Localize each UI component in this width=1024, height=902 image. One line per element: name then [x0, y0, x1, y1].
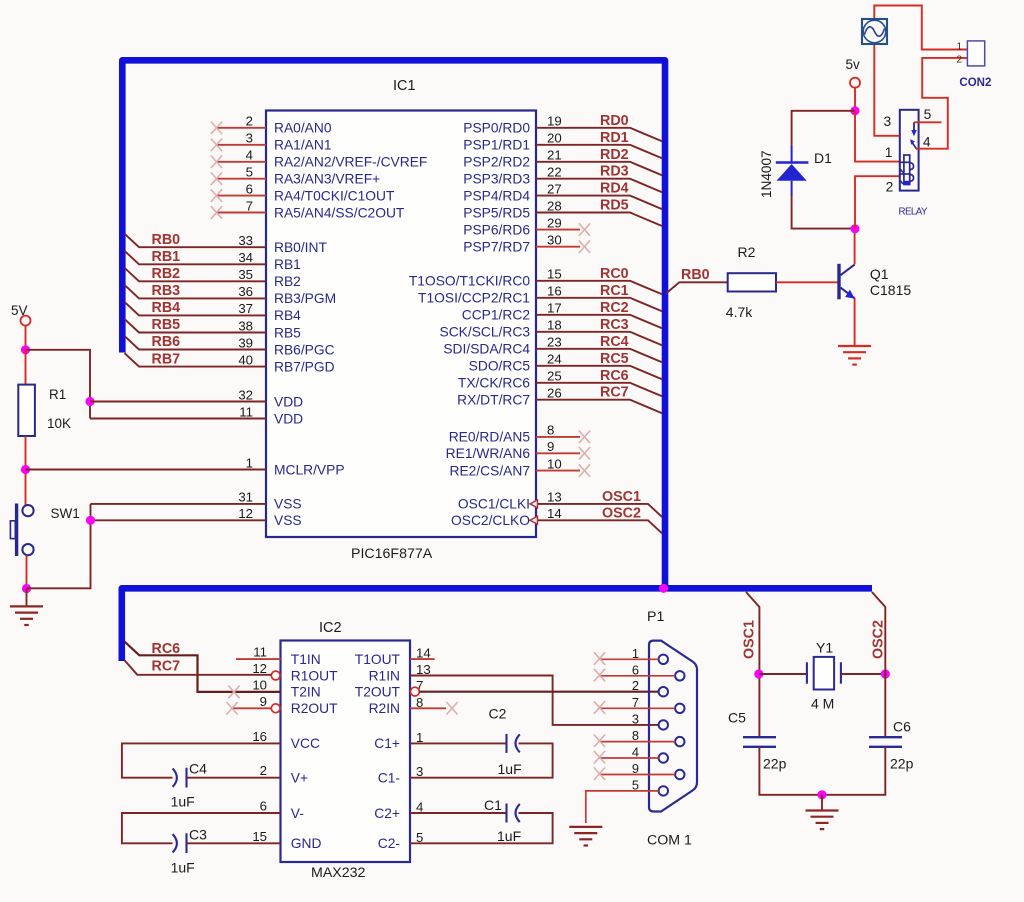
svg-text:R1OUT: R1OUT: [291, 668, 338, 683]
label net RC1: [600, 283, 629, 299]
diode D1: [776, 146, 809, 196]
node crystal ground junction: [817, 790, 826, 799]
svg-text:11: 11: [253, 645, 267, 660]
label CON2: [959, 77, 991, 89]
svg-text:T2OUT: T2OUT: [355, 684, 401, 699]
label C2: [489, 706, 507, 722]
svg-text:RB6/PGC: RB6/PGC: [274, 342, 335, 357]
svg-text:PSP5/RD5: PSP5/RD5: [463, 205, 530, 220]
wire net RB7 bus-to-pin 40: [125, 353, 267, 367]
relay NO contact arrow pin4: [910, 139, 917, 149]
label net RD4: [600, 181, 629, 197]
wire Q1 emitter down: [854, 298, 856, 346]
pin 14 input arrow: [530, 516, 538, 524]
wire C1+ to C2: [410, 742, 506, 744]
op-amp U1 IC1 PIC16F877A body: [266, 111, 536, 538]
wire net RD0 pin 19-to-bus: [536, 128, 662, 142]
svg-text:VDD: VDD: [274, 394, 303, 409]
svg-text:C1: C1: [484, 797, 502, 813]
svg-text:RE0/RD/AN5: RE0/RD/AN5: [449, 430, 531, 445]
svg-text:SCK/SCL/RC3: SCK/SCL/RC3: [440, 325, 531, 340]
label Y1 value 4 M: [811, 696, 834, 712]
svg-text:RC5: RC5: [600, 351, 629, 367]
wire 5V junction to VDD rail: [26, 350, 91, 419]
no-connect X pin 5: [211, 172, 222, 185]
wire C5 to ground rail: [759, 747, 822, 795]
AC load symbol: [862, 19, 887, 44]
pin bubble T2OUT: [411, 687, 420, 696]
wire stub pin 9 RE1/WR/AN6: [536, 452, 580, 454]
svg-text:38: 38: [238, 318, 253, 333]
resistor R2: [728, 273, 776, 291]
svg-text:OSC2: OSC2: [602, 505, 641, 521]
svg-text:1: 1: [632, 646, 639, 661]
svg-text:RC2: RC2: [600, 300, 629, 316]
no-connect X pin 29: [579, 223, 590, 236]
wire net T2OUT to P1 pin2: [419, 691, 658, 693]
node 5V junction: [21, 345, 30, 354]
relay pin number 2: [886, 180, 894, 195]
wire net OSC1 bus-to-crystal: [746, 592, 759, 737]
svg-text:R2IN: R2IN: [369, 701, 400, 716]
node ground junction left: [22, 584, 31, 593]
wire relay pin4 to CON2 pin2: [916, 58, 967, 149]
wire net OSC1 pin 13-to-bus: [536, 504, 662, 517]
svg-text:RC4: RC4: [600, 334, 629, 350]
label net RC0: [600, 266, 629, 282]
svg-text:RA3/AN3/VREF+: RA3/AN3/VREF+: [274, 172, 380, 187]
svg-text:5: 5: [246, 165, 253, 180]
svg-text:VDD: VDD: [274, 411, 303, 426]
wire stub pin 7 RA5/AN4/SS/C2OUT: [217, 212, 266, 214]
svg-text:PSP3/RD3: PSP3/RD3: [463, 172, 530, 187]
svg-text:C3: C3: [189, 827, 207, 843]
svg-text:23: 23: [547, 335, 562, 350]
svg-text:RB1: RB1: [274, 257, 301, 272]
no-connect X pin 3: [211, 139, 222, 152]
wire stub pin 5 RA3/AN3/VREF+: [217, 178, 266, 180]
node VSS rail junction: [86, 516, 95, 525]
wire C2 loop to C1-: [410, 743, 553, 777]
svg-text:RB0: RB0: [152, 232, 181, 248]
svg-text:12: 12: [252, 661, 267, 676]
svg-text:RB3/PGM: RB3/PGM: [274, 291, 336, 306]
label C4 value 1uF: [171, 794, 195, 810]
svg-text:C6: C6: [893, 719, 911, 735]
svg-text:RELAY: RELAY: [899, 207, 928, 218]
svg-text:RA1/AN1: RA1/AN1: [274, 138, 332, 153]
label IC2 designator: [319, 620, 342, 636]
wire stub pin 2 RA0/AN0: [217, 127, 266, 129]
capacitor C2: [507, 734, 520, 753]
svg-text:RA4/T0CKI/C1OUT: RA4/T0CKI/C1OUT: [274, 188, 395, 203]
CON2 pin number 1: [957, 41, 963, 52]
svg-text:RA2/AN2/VREF-/CVREF: RA2/AN2/VREF-/CVREF: [274, 155, 427, 170]
label net RB1: [152, 249, 181, 265]
svg-text:16: 16: [547, 284, 562, 299]
switch SW1: [10, 504, 33, 557]
svg-text:CON2: CON2: [959, 77, 991, 89]
svg-text:40: 40: [238, 352, 253, 367]
IC1 left pin numbers: [238, 114, 253, 521]
capacitor C6: [869, 737, 902, 747]
wire VSS pin31: [91, 503, 267, 505]
svg-text:C1+: C1+: [374, 736, 400, 751]
svg-text:T1OSO/T1CKI/RC0: T1OSO/T1CKI/RC0: [409, 274, 530, 289]
svg-text:26: 26: [547, 386, 562, 401]
wire crystal to OSC2: [841, 673, 885, 675]
IC2 right pin names and numbers: [355, 646, 431, 852]
capacitor C3: [173, 833, 187, 853]
wire bus2 (thick blue) bottom rail: [122, 588, 872, 661]
wire stub pin 29 PSP6/RD6: [536, 229, 580, 231]
wire net RC2 pin 17-to-bus: [536, 315, 662, 329]
svg-text:OSC1: OSC1: [742, 620, 758, 659]
svg-text:C2: C2: [489, 706, 507, 722]
svg-text:RC1: RC1: [600, 283, 629, 299]
relay switch contact: [911, 122, 917, 136]
svg-text:4 M: 4 M: [811, 696, 834, 712]
wire VSS rail down: [27, 504, 91, 588]
svg-text:R1: R1: [49, 387, 66, 402]
capacitor C5: [743, 737, 776, 747]
svg-text:RE2/CS/AN7: RE2/CS/AN7: [449, 463, 530, 478]
connector P1 DB9 shell: [649, 641, 697, 812]
svg-text:RC3: RC3: [600, 317, 629, 333]
svg-text:PSP0/RD0: PSP0/RD0: [463, 121, 530, 136]
label D1: [814, 150, 832, 166]
label net RD2: [600, 147, 629, 163]
svg-text:17: 17: [547, 301, 562, 316]
label MAX232: [311, 865, 366, 881]
wire net RC5 pin 24-to-bus: [536, 366, 662, 380]
label net RD3: [600, 164, 629, 180]
svg-text:9: 9: [632, 761, 639, 776]
label Y1: [816, 640, 833, 656]
wire net R1IN to P1 pin3: [410, 676, 659, 725]
node VDD rail junction: [85, 397, 94, 406]
wire net RB6 bus-to-pin 39: [125, 336, 267, 350]
svg-text:SDO/RC5: SDO/RC5: [469, 359, 531, 374]
svg-text:RD1: RD1: [600, 130, 629, 146]
svg-text:5: 5: [632, 777, 639, 792]
wire net RC6 bus-to-T2IN: [125, 642, 281, 692]
label net RD5: [600, 198, 629, 214]
svg-text:39: 39: [238, 335, 253, 350]
svg-text:10: 10: [547, 456, 562, 471]
wire net RC1 pin 16-to-bus: [536, 298, 662, 312]
wire net RB1 bus-to-pin 34: [125, 251, 267, 264]
label net RD1: [600, 130, 629, 146]
svg-text:MCLR/VPP: MCLR/VPP: [274, 462, 345, 477]
svg-text:15: 15: [252, 829, 267, 844]
label COM 1: [647, 833, 692, 849]
svg-text:OSC2/CLKO: OSC2/CLKO: [451, 513, 530, 528]
label C6: [893, 719, 911, 735]
label IC1 designator: [393, 78, 416, 94]
svg-text:V-: V-: [291, 806, 304, 821]
svg-text:4: 4: [923, 135, 931, 150]
svg-text:24: 24: [547, 352, 562, 367]
svg-text:10K: 10K: [47, 416, 71, 431]
svg-text:25: 25: [547, 369, 562, 384]
wire stub pin 30 PSP7/RD7: [536, 246, 580, 248]
wire P1 pin1: [600, 658, 659, 660]
svg-text:C2-: C2-: [378, 836, 400, 851]
svg-text:RB7/PGD: RB7/PGD: [274, 359, 335, 374]
svg-text:P1: P1: [647, 609, 664, 625]
wire SW1 to ground junction: [26, 555, 28, 589]
wire stub R2OUT pin 9: [233, 707, 271, 709]
label C4: [189, 761, 207, 777]
IC1 left pin names: [274, 121, 427, 528]
label C5 value 22p: [763, 756, 787, 772]
IC1 right pin numbers: [547, 114, 562, 521]
svg-text:SDI/SDA/RC4: SDI/SDA/RC4: [443, 342, 530, 357]
svg-text:R2: R2: [738, 244, 756, 260]
wire net OSC2 bus-to-crystal: [872, 592, 885, 737]
svg-text:RD5: RD5: [600, 198, 629, 214]
wire net RC4 pin 23-to-bus: [536, 349, 662, 363]
wire net RC7 bus-to-R1OUT: [125, 660, 272, 675]
label C1: [484, 797, 502, 813]
svg-text:36: 36: [238, 284, 253, 299]
label C6 value 22p: [890, 756, 914, 772]
svg-text:22p: 22p: [890, 756, 914, 772]
power 5v terminal circle: [850, 78, 860, 88]
svg-text:C2+: C2+: [374, 806, 400, 821]
wire stub pin 8 RE0/RD/AN5: [536, 436, 580, 438]
svg-text:14: 14: [547, 506, 562, 521]
svg-text:1: 1: [957, 41, 963, 52]
node collector junction: [850, 224, 859, 233]
wire VDD pin32: [90, 401, 266, 403]
relay pin number 4: [923, 135, 931, 150]
svg-text:RC6: RC6: [600, 368, 629, 384]
label net OSC2: [602, 505, 641, 521]
wire Q1 collector up: [854, 229, 856, 264]
relay coil: [900, 155, 914, 185]
label net RC6: [152, 641, 181, 657]
no-connect X on T2IN wire: [228, 686, 239, 699]
wire net RC7 pin 26-to-bus: [536, 400, 662, 414]
wire R2 to Q1 base: [776, 281, 838, 283]
wire D1 top branch: [792, 111, 855, 147]
label P1: [647, 609, 664, 625]
svg-text:RB3: RB3: [152, 283, 181, 299]
node MCLR junction: [21, 465, 30, 474]
no-connect X pin 7: [211, 206, 222, 219]
no-connect X P1 pin1: [594, 652, 605, 665]
wire V- loop to C3: [122, 813, 281, 843]
svg-text:22: 22: [547, 165, 562, 180]
svg-text:1N4007: 1N4007: [759, 150, 774, 198]
svg-text:C1-: C1-: [378, 771, 400, 786]
wire stub pin 6 RA4/T0CKI/C1OUT: [217, 195, 266, 197]
svg-text:RA0/AN0: RA0/AN0: [274, 121, 332, 136]
capacitor C1: [507, 804, 520, 823]
label net RC6: [600, 368, 629, 384]
svg-text:R2OUT: R2OUT: [291, 701, 338, 716]
svg-text:37: 37: [238, 301, 253, 316]
label net RD0: [600, 113, 629, 129]
pin bubble R2OUT: [271, 704, 280, 713]
svg-text:2: 2: [260, 763, 267, 778]
CON2 pin number 2: [957, 54, 963, 65]
svg-text:33: 33: [238, 233, 253, 248]
svg-text:R1IN: R1IN: [369, 668, 400, 683]
svg-text:RD0: RD0: [600, 113, 629, 129]
svg-text:RX/DT/RC7: RX/DT/RC7: [457, 393, 530, 408]
wire VDD pin11: [90, 418, 266, 420]
label net RB0: [152, 232, 181, 248]
wire 5v to relay pin1: [855, 111, 900, 162]
svg-text:RD2: RD2: [600, 147, 629, 163]
svg-text:3: 3: [884, 114, 892, 129]
wire ground stub crystal: [821, 795, 823, 810]
svg-text:1uF: 1uF: [171, 860, 195, 876]
resistor R1: [18, 385, 35, 436]
svg-text:D1: D1: [814, 150, 832, 166]
svg-text:12: 12: [238, 506, 253, 521]
wire P1 pin9: [600, 774, 676, 776]
svg-text:IC2: IC2: [319, 620, 342, 636]
no-connect X P1 pin9: [594, 767, 605, 780]
svg-text:9: 9: [547, 439, 554, 454]
label R2: [738, 244, 756, 260]
wire D1 bottom branch: [792, 195, 855, 229]
wire VCC loop to C4: [122, 743, 281, 777]
wire 5v circle down: [854, 88, 856, 111]
svg-text:4.7k: 4.7k: [726, 304, 753, 320]
svg-text:RC7: RC7: [600, 385, 629, 401]
node 5v junction: [850, 106, 859, 115]
wire C3 to GND pin: [187, 842, 281, 844]
wire R1 to MCLR junction: [25, 436, 27, 505]
svg-text:RB7: RB7: [152, 351, 181, 367]
svg-text:31: 31: [238, 490, 253, 505]
wire net RC0 pin 15-to-bus: [536, 281, 662, 295]
label net RC4: [600, 334, 629, 350]
svg-text:MAX232: MAX232: [311, 865, 366, 881]
svg-text:32: 32: [238, 387, 253, 402]
label C5: [728, 710, 746, 726]
IC1 right pin names: [409, 121, 530, 528]
wire relay pin5 stub: [914, 121, 942, 123]
wire net RD3 pin 22-to-bus: [536, 179, 662, 193]
wire P1 pin5 to ground: [586, 791, 659, 823]
svg-text:20: 20: [547, 131, 562, 146]
svg-text:VCC: VCC: [291, 736, 320, 751]
svg-text:C5: C5: [728, 710, 746, 726]
no-connect X pin 2: [211, 122, 222, 135]
wire net RB5 bus-to-pin 38: [125, 319, 267, 333]
no-connect X pin 9: [579, 447, 590, 460]
svg-text:2: 2: [886, 180, 894, 195]
no-connect X P1 pin8: [594, 735, 605, 748]
label net OSC1 (rotated): [742, 620, 758, 659]
wire stub T1OUT pin 14: [410, 658, 435, 660]
svg-text:15: 15: [547, 267, 562, 282]
transistor Q1: [837, 264, 855, 300]
label 4.7k: [726, 304, 753, 320]
svg-text:2: 2: [246, 114, 253, 129]
label net RC2: [600, 300, 629, 316]
svg-text:RB1: RB1: [152, 249, 181, 265]
wire C1 loop to C2-: [410, 813, 553, 843]
svg-text:5: 5: [924, 107, 932, 122]
label net RB4: [152, 300, 181, 316]
no-connect X pin 4: [211, 156, 222, 169]
svg-text:C1815: C1815: [870, 282, 911, 298]
svg-text:OSC1: OSC1: [602, 489, 641, 505]
no-connect X pin 9: [226, 702, 237, 715]
svg-text:RB4: RB4: [152, 300, 181, 316]
ground symbol crystal: [806, 811, 839, 830]
wire net RB0 bus-to-R2: [666, 282, 728, 293]
svg-text:30: 30: [547, 233, 562, 248]
P1 pin circles: [659, 655, 685, 796]
connector CON2 body: [967, 41, 984, 66]
svg-text:CCP1/RC2: CCP1/RC2: [462, 308, 530, 323]
crystal Y1: [807, 657, 841, 690]
svg-text:GND: GND: [291, 836, 322, 851]
svg-text:29: 29: [547, 215, 562, 230]
relay pin number 3: [884, 114, 892, 129]
wire stub pin 4 RA2/AN2/VREF-/CVREF: [217, 161, 266, 163]
no-connect X pin 10: [579, 464, 590, 477]
svg-text:Q1: Q1: [870, 266, 889, 282]
wire net RB2 bus-to-pin 35: [125, 268, 267, 282]
wire stub pin 10 RE2/CS/AN7: [536, 470, 580, 472]
wire C6 to ground rail: [822, 747, 885, 795]
pin bubble R1OUT: [271, 671, 280, 680]
svg-text:8: 8: [632, 728, 639, 743]
svg-text:RB0/INT: RB0/INT: [274, 240, 327, 255]
label net RC3: [600, 317, 629, 333]
svg-text:7: 7: [246, 198, 253, 213]
svg-text:2: 2: [957, 54, 963, 65]
label 10K: [47, 416, 71, 431]
power 5V terminal circle: [21, 316, 31, 326]
wire P1 pin4: [600, 757, 659, 759]
svg-text:RD3: RD3: [600, 164, 629, 180]
svg-text:3: 3: [632, 711, 639, 726]
wire ground stub left: [26, 589, 28, 607]
IC2 left pin names and numbers: [252, 645, 338, 852]
svg-text:RB2: RB2: [152, 266, 181, 282]
svg-text:1uF: 1uF: [497, 828, 521, 844]
svg-text:C4: C4: [189, 761, 207, 777]
svg-text:RB6: RB6: [152, 334, 181, 350]
svg-text:T1OSI/CCP2/RC1: T1OSI/CCP2/RC1: [418, 291, 530, 306]
wire net OSC2 pin 14-to-bus: [536, 520, 662, 533]
svg-text:RB4: RB4: [274, 308, 301, 323]
svg-text:RB5: RB5: [274, 325, 301, 340]
svg-text:6: 6: [246, 181, 253, 196]
svg-text:VSS: VSS: [274, 513, 302, 528]
svg-text:1uF: 1uF: [498, 761, 522, 777]
svg-text:RA5/AN4/SS/C2OUT: RA5/AN4/SS/C2OUT: [274, 205, 405, 220]
svg-text:22p: 22p: [763, 756, 787, 772]
label net OSC2 (rotated): [871, 620, 887, 659]
wire P1 pin6: [600, 675, 676, 677]
label SW1: [51, 506, 80, 521]
svg-text:RE1/WR/AN6: RE1/WR/AN6: [446, 446, 531, 461]
ground symbol left: [10, 606, 43, 625]
label R1: [49, 387, 66, 402]
label C3 value 1uF: [171, 860, 195, 876]
